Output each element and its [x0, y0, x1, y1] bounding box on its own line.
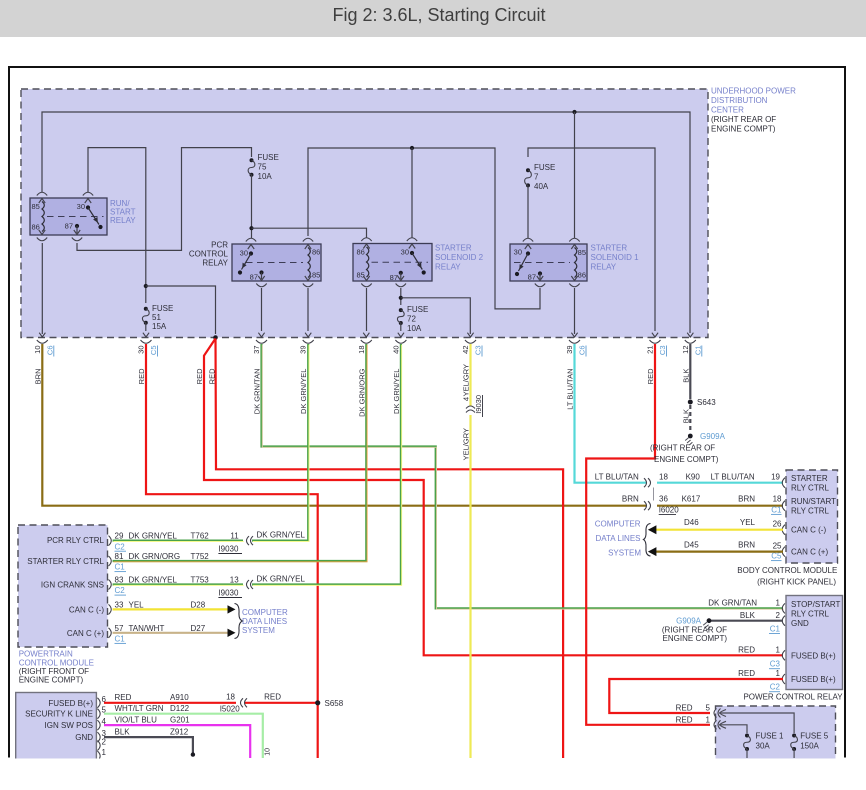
svg-text:BRN: BRN — [622, 495, 639, 504]
pin exit 37 — [258, 333, 264, 337]
wire WHT/LT GRN D122 security K line — [104, 714, 263, 758]
wire BLK Z912 ground — [104, 737, 193, 754]
svg-text:30: 30 — [514, 248, 522, 257]
relay PCR pin arcs — [246, 238, 256, 241]
svg-text:150A: 150A — [800, 742, 819, 751]
svg-text:Fig 2: 3.6L, Starting Circuit: Fig 2: 3.6L, Starting Circuit — [332, 5, 545, 25]
svg-text:ENGINE COMPT): ENGINE COMPT) — [19, 675, 84, 684]
svg-text:D28: D28 — [191, 600, 206, 609]
svg-text:86: 86 — [357, 248, 365, 257]
svg-text:36: 36 — [659, 495, 668, 504]
svg-text:STOP/START: STOP/START — [791, 600, 840, 609]
svg-text:C5: C5 — [771, 552, 782, 561]
svg-text:2: 2 — [776, 611, 781, 620]
svg-text:15A: 15A — [152, 322, 167, 331]
svg-text:12: 12 — [681, 346, 690, 354]
node fuse75 branch — [249, 226, 253, 230]
svg-text:T753: T753 — [191, 576, 210, 585]
splice S658 — [315, 700, 320, 705]
wire PCR 85 down to exit 39 — [307, 288, 309, 331]
fuse FUSE 1 30A — [745, 734, 749, 738]
wire YEL CAN C- to data lines — [113, 608, 228, 610]
svg-text:(RIGHT REAR OF: (RIGHT REAR OF — [650, 444, 715, 453]
svg-text:57: 57 — [115, 624, 124, 633]
fuse FUSE 5 150A — [792, 734, 796, 738]
wire fuse51 branch to junction exit — [146, 286, 216, 334]
relay STARTER SOLENOID 2 RELAY — [353, 244, 432, 282]
svg-text:5: 5 — [706, 704, 711, 713]
inline connector I5020 pin18 on RED — [241, 698, 244, 707]
svg-text:CENTER: CENTER — [711, 106, 744, 115]
relay RUN/START RELAY — [30, 198, 107, 235]
svg-text:STARTER: STARTER — [791, 474, 828, 483]
node fuse51 branch — [144, 284, 148, 288]
svg-text:CAN C (-): CAN C (-) — [791, 526, 826, 535]
svg-text:1: 1 — [102, 748, 107, 757]
svg-text:10: 10 — [265, 748, 272, 756]
svg-text:I9030: I9030 — [218, 589, 239, 598]
svg-text:C3: C3 — [770, 660, 781, 669]
svg-text:BRN: BRN — [33, 369, 42, 385]
pin exit 21 C3 — [652, 333, 658, 337]
wire BRN CAN C+ BCM to data lines — [654, 550, 783, 552]
svg-text:G909A: G909A — [700, 432, 726, 441]
wire DK GRN/YEL PCR85 to PCM pin29 — [252, 344, 308, 541]
svg-text:LT BLU/TAN: LT BLU/TAN — [595, 473, 639, 482]
svg-text:DK GRN/TAN: DK GRN/TAN — [253, 369, 262, 415]
wire bus B+ top — [42, 112, 690, 333]
stop/start pin 2 GND — [782, 616, 785, 626]
svg-text:C1: C1 — [693, 346, 702, 356]
stop/start pin 1 FUSED B+ C3 — [782, 650, 785, 660]
svg-text:YEL/GRY: YEL/GRY — [462, 364, 471, 396]
svg-text:86: 86 — [578, 271, 586, 280]
module box: powertrain control module — [18, 525, 108, 647]
svg-text:T752: T752 — [191, 552, 210, 561]
svg-text:11: 11 — [230, 532, 239, 541]
svg-text:K90: K90 — [686, 473, 701, 482]
svg-text:39: 39 — [299, 346, 308, 354]
svg-text:GND: GND — [75, 733, 93, 742]
svg-text:C1: C1 — [115, 635, 126, 644]
wire TAN/WHT CAN C+ to data lines — [113, 632, 228, 634]
wire VIO/LT BLU G201 ign sw pos — [104, 725, 250, 758]
wire PCR 87 down to exit 37 — [261, 288, 263, 331]
wire BLK exit12 to S643 — [689, 344, 691, 399]
wire DK GRN/TAN PCR87 to stop/start rly ctrl — [262, 344, 784, 608]
wire LT BLU/TAN SS1-86 to BCM pin19 — [575, 344, 647, 483]
svg-text:STARTER RLY CTRL: STARTER RLY CTRL — [27, 557, 104, 566]
svg-text:C1: C1 — [115, 563, 126, 572]
wire fuse block pin5 to fuse5 — [720, 713, 795, 733]
svg-text:83: 83 — [115, 576, 124, 585]
svg-text:RED: RED — [137, 368, 146, 384]
svg-text:I6020: I6020 — [659, 506, 680, 515]
svg-text:40: 40 — [391, 346, 400, 354]
svg-text:TAN/WHT: TAN/WHT — [129, 624, 165, 633]
fuse FUSE 75 10A — [250, 158, 254, 162]
ground G909A right rear — [688, 434, 693, 439]
svg-text:DK GRN/ORG: DK GRN/ORG — [129, 552, 181, 561]
svg-text:87: 87 — [250, 273, 258, 282]
svg-text:DATA LINES: DATA LINES — [242, 617, 287, 626]
svg-text:IGN SW POS: IGN SW POS — [45, 721, 93, 730]
svg-text:85: 85 — [32, 202, 40, 211]
svg-text:G201: G201 — [170, 715, 190, 724]
svg-text:1: 1 — [706, 716, 711, 725]
svg-text:S643: S643 — [697, 398, 716, 407]
pin exit 39 — [305, 333, 311, 337]
svg-text:FUSE: FUSE — [258, 153, 279, 162]
svg-text:C2: C2 — [770, 683, 781, 692]
svg-text:CONTROL MODULE: CONTROL MODULE — [19, 658, 94, 667]
svg-text:BRN: BRN — [738, 541, 755, 550]
svg-text:RELAY: RELAY — [591, 263, 617, 272]
svg-text:FUSE 5: FUSE 5 — [800, 732, 829, 741]
svg-text:DK GRN/YEL: DK GRN/YEL — [392, 369, 401, 414]
svg-text:FUSE: FUSE — [407, 305, 428, 314]
inline connector I9030 pin4 on YEL/GRY — [466, 406, 475, 409]
wire branch to exit 42 — [401, 298, 471, 334]
svg-text:1: 1 — [776, 669, 781, 678]
svg-text:CONTROL: CONTROL — [189, 250, 229, 259]
svg-text:FUSED B(+): FUSED B(+) — [791, 651, 836, 660]
fuse FUSE 51 15A — [144, 307, 148, 311]
svg-text:FUSE: FUSE — [152, 304, 173, 313]
wire BRN run/start coil to BCM — [42, 344, 646, 506]
svg-text:87: 87 — [65, 222, 73, 231]
svg-text:ENGINE COMPT): ENGINE COMPT) — [711, 125, 776, 134]
svg-text:10: 10 — [33, 346, 42, 354]
relay SS2 pin arcs — [361, 238, 371, 241]
svg-text:1: 1 — [776, 599, 781, 608]
svg-text:D122: D122 — [170, 704, 190, 713]
svg-text:SOLENOID 2: SOLENOID 2 — [435, 253, 484, 262]
svg-text:30A: 30A — [756, 742, 771, 751]
wire RED junction straight branch — [216, 339, 564, 759]
pin exit 40 — [398, 333, 404, 337]
svg-text:IGN CRANK SNS: IGN CRANK SNS — [41, 581, 104, 590]
wire run/start 30 to fuse51 — [88, 148, 146, 303]
svg-text:RELAY: RELAY — [202, 259, 228, 268]
svg-text:S658: S658 — [325, 699, 344, 708]
svg-text:RED: RED — [264, 693, 281, 702]
module box: body control module — [786, 470, 838, 563]
wire run/start 87 loop to fuse75 — [77, 148, 252, 251]
svg-text:ENGINE COMPT): ENGINE COMPT) — [654, 455, 719, 464]
svg-text:2: 2 — [102, 738, 107, 747]
svg-text:85: 85 — [578, 248, 586, 257]
svg-text:CAN C (+): CAN C (+) — [67, 629, 104, 638]
svg-text:4: 4 — [462, 397, 471, 401]
ground G909A stop/start — [707, 618, 712, 623]
svg-text:40A: 40A — [534, 182, 549, 191]
svg-text:C6: C6 — [45, 346, 54, 356]
wire RED fuse51 to S658 splice — [146, 344, 318, 758]
svg-text:BLK: BLK — [681, 369, 690, 383]
bottom clip — [0, 759, 866, 786]
stop/start pin 1 FUSED B+ C2 — [782, 674, 785, 684]
svg-text:C2: C2 — [115, 542, 126, 551]
svg-text:BODY CONTROL MODULE: BODY CONTROL MODULE — [737, 566, 837, 575]
relay RUN/START pin arcs — [37, 192, 47, 195]
svg-text:30: 30 — [77, 202, 85, 211]
svg-text:POWERTRAIN: POWERTRAIN — [19, 650, 73, 659]
relay SS2 87 pin dot — [399, 271, 403, 275]
svg-text:RED: RED — [646, 368, 655, 384]
svg-text:SECURITY K LINE: SECURITY K LINE — [25, 710, 93, 719]
wire branch to SS2 relay 86 — [252, 228, 367, 238]
svg-text:GND: GND — [791, 619, 809, 628]
svg-text:18: 18 — [773, 495, 782, 504]
svg-text:10A: 10A — [258, 172, 273, 181]
svg-text:51: 51 — [152, 313, 161, 322]
svg-text:RUN/START: RUN/START — [791, 497, 836, 506]
computer data lines brace right — [644, 524, 651, 557]
svg-text:19: 19 — [771, 473, 780, 482]
pin exit 10 C6 — [39, 333, 45, 337]
svg-text:DK GRN/YEL: DK GRN/YEL — [129, 576, 178, 585]
relay PCR 87 pin dot — [259, 270, 263, 274]
wire DK GRN/YEL SS2-87 to PCM pin83 — [252, 344, 401, 585]
svg-text:87: 87 — [528, 273, 536, 282]
pin exit 30 C5 — [143, 333, 149, 337]
pin exit 18 — [363, 333, 369, 337]
wire RED exit21 to fuse block pin1 — [586, 344, 710, 725]
svg-text:39: 39 — [565, 346, 574, 354]
svg-text:SOLENOID 1: SOLENOID 1 — [591, 253, 640, 262]
wire YEL/GRY exit42 down to bottom — [469, 344, 471, 406]
fuse FUSE 72 10A — [399, 308, 403, 312]
svg-text:POWER CONTROL RELAY: POWER CONTROL RELAY — [743, 693, 843, 702]
svg-text:LT BLU/TAN: LT BLU/TAN — [711, 473, 755, 482]
title bar — [0, 0, 866, 37]
svg-text:(RIGHT KICK PANEL): (RIGHT KICK PANEL) — [757, 578, 836, 587]
svg-text:DK GRN/YEL: DK GRN/YEL — [299, 369, 308, 414]
node SS2 30 tap — [410, 146, 414, 150]
svg-text:DISTRIBUTION: DISTRIBUTION — [711, 96, 768, 105]
svg-text:81: 81 — [115, 552, 124, 561]
underhood power distribution center box — [21, 89, 708, 338]
svg-text:72: 72 — [407, 315, 416, 324]
svg-text:(RIGHT REAR OF: (RIGHT REAR OF — [662, 625, 727, 634]
wire SS1 86 down to exit 39 C6 — [574, 288, 576, 334]
svg-text:STARTER: STARTER — [591, 244, 628, 253]
module box: power control relay (stop/start) — [786, 596, 843, 690]
svg-text:C6: C6 — [578, 346, 587, 356]
module box: bottom-left module — [16, 693, 97, 761]
svg-text:33: 33 — [115, 600, 124, 609]
svg-text:C3: C3 — [474, 346, 483, 356]
svg-text:PCR: PCR — [211, 241, 228, 250]
wire BLK ground to stop/start — [711, 620, 783, 622]
svg-text:I9030: I9030 — [218, 545, 239, 554]
relay RUN/START switch arm — [86, 205, 90, 209]
wire RED junction diagonal branch to fused B+ C3 — [204, 339, 783, 656]
svg-text:42: 42 — [461, 346, 470, 354]
svg-text:T762: T762 — [191, 532, 210, 541]
svg-text:Z912: Z912 — [170, 727, 189, 736]
svg-text:18: 18 — [659, 473, 668, 482]
wire DK GRN/ORG SS2-85 to PCM pin81 — [113, 344, 367, 561]
svg-text:CAN C (+): CAN C (+) — [791, 548, 828, 557]
svg-text:DK GRN/YEL: DK GRN/YEL — [257, 575, 306, 584]
svg-text:7: 7 — [534, 173, 539, 182]
svg-text:RLY CTRL: RLY CTRL — [791, 507, 829, 516]
svg-text:D27: D27 — [191, 624, 206, 633]
svg-text:C1: C1 — [770, 625, 781, 634]
relay RUN/START 87 pin dot — [75, 224, 79, 228]
wire fuse75 to PCR relay 30 — [251, 175, 253, 238]
svg-text:YEL/GRY: YEL/GRY — [462, 428, 471, 460]
svg-text:DK GRN/YEL: DK GRN/YEL — [257, 531, 306, 540]
svg-text:I5020: I5020 — [220, 705, 241, 714]
svg-text:85: 85 — [312, 271, 320, 280]
wire SS2 87 down to fuse72 — [400, 288, 402, 305]
splice S643 — [688, 400, 693, 405]
relay SS1 pin arcs — [523, 238, 533, 241]
svg-text:SYSTEM: SYSTEM — [608, 549, 641, 558]
bcm pin 25 CAN C (+) — [782, 547, 785, 557]
svg-text:FUSE: FUSE — [534, 163, 555, 172]
svg-text:WHT/LT GRN: WHT/LT GRN — [115, 704, 164, 713]
svg-text:RELAY: RELAY — [110, 216, 136, 225]
svg-text:37: 37 — [252, 346, 261, 354]
svg-text:RLY CTRL: RLY CTRL — [791, 610, 829, 619]
svg-text:BLK: BLK — [681, 409, 690, 423]
svg-text:DATA LINES: DATA LINES — [595, 534, 640, 543]
svg-text:UNDERHOOD POWER: UNDERHOOD POWER — [711, 87, 796, 96]
svg-text:RED: RED — [738, 669, 755, 678]
svg-text:BRN: BRN — [738, 495, 755, 504]
svg-text:30: 30 — [137, 346, 146, 354]
svg-text:C1: C1 — [771, 506, 782, 515]
svg-text:29: 29 — [115, 532, 124, 541]
node junction on border S-exit — [213, 335, 218, 340]
svg-text:RED: RED — [676, 716, 693, 725]
relay SS1 87 pin dot — [538, 271, 542, 275]
svg-text:DK GRN/ORG: DK GRN/ORG — [357, 368, 366, 417]
bcm pin 26 CAN C (-) — [782, 525, 785, 535]
svg-text:YEL: YEL — [129, 600, 145, 609]
relay SS2 switch arm — [410, 251, 414, 255]
stop/start pin 1 RLY CTRL — [782, 603, 785, 613]
svg-text:COMPUTER: COMPUTER — [242, 608, 288, 617]
svg-text:RED: RED — [676, 704, 693, 713]
svg-text:ENGINE COMPT): ENGINE COMPT) — [663, 634, 728, 643]
svg-text:LT BLU/TAN: LT BLU/TAN — [566, 369, 575, 410]
svg-text:DK GRN/YEL: DK GRN/YEL — [129, 532, 178, 541]
relay PCR switch arm — [249, 251, 253, 255]
svg-text:COMPUTER: COMPUTER — [595, 520, 641, 529]
wire fuse7 bus to exit 21 — [528, 148, 655, 331]
svg-text:85: 85 — [357, 271, 365, 280]
svg-text:DK GRN/TAN: DK GRN/TAN — [708, 599, 757, 608]
svg-text:30: 30 — [240, 249, 248, 258]
wire RED fused B+ C2 to fuse block pin5 — [609, 679, 783, 713]
wire RED A910 fused B+ to S658 — [104, 702, 236, 704]
relay PCR CONTROL RELAY — [232, 244, 321, 281]
computer data lines brace left — [235, 604, 243, 639]
svg-text:C3: C3 — [658, 346, 667, 356]
wire fuse7 to SS1 30 — [527, 185, 529, 238]
inline connector I6020 pin36 on BRN — [648, 501, 651, 510]
pin exit 42 C3 — [467, 333, 473, 337]
wire run/start 86 down to exit 10 — [41, 243, 43, 334]
svg-text:30: 30 — [401, 248, 409, 257]
svg-text:CAN C (-): CAN C (-) — [69, 606, 104, 615]
pin exit 12 C1 — [687, 333, 693, 337]
svg-text:D46: D46 — [684, 518, 699, 527]
svg-text:YEL: YEL — [740, 518, 756, 527]
inline connector K90 pin18 on LT BLU/TAN — [648, 478, 651, 487]
wire PCR 86 riser and bus to SS1 87 — [308, 148, 540, 309]
svg-text:RELAY: RELAY — [435, 263, 461, 272]
svg-text:87: 87 — [390, 273, 398, 282]
svg-text:BLK: BLK — [115, 727, 131, 736]
wire BLK dashed S643 to ground — [689, 405, 691, 432]
svg-text:G909A: G909A — [676, 617, 702, 626]
svg-text:26: 26 — [773, 520, 782, 529]
wire starter solenoid1 85 riser — [574, 112, 576, 238]
svg-text:25: 25 — [773, 541, 782, 550]
svg-text:VIO/LT BLU: VIO/LT BLU — [115, 715, 158, 724]
wire SS2 30 riser — [411, 148, 413, 238]
wire fuse block pin1 to fuse1 — [720, 725, 748, 733]
relay SS1 switch arm — [526, 251, 530, 255]
wire SS2 85 down to exit 18 — [366, 288, 368, 331]
svg-text:PCR RLY CTRL: PCR RLY CTRL — [47, 536, 105, 545]
svg-text:RLY CTRL: RLY CTRL — [791, 484, 829, 493]
svg-text:BLK: BLK — [740, 611, 756, 620]
relay STARTER SOLENOID 1 RELAY — [510, 244, 587, 281]
svg-text:FUSE 1: FUSE 1 — [756, 732, 785, 741]
svg-text:C2: C2 — [115, 586, 126, 595]
node bus junction — [572, 110, 576, 114]
svg-text:FUSED B(+): FUSED B(+) — [48, 699, 93, 708]
svg-text:18: 18 — [357, 346, 366, 354]
bcm pin 18 RUN/START RLY CTRL — [782, 501, 785, 511]
bcm pin 19 STARTER RLY CTRL — [782, 478, 785, 488]
pin exit 39 C6 — [571, 333, 577, 337]
svg-text:RED: RED — [207, 368, 216, 384]
svg-text:C5: C5 — [149, 346, 158, 356]
svg-text:FUSED B(+): FUSED B(+) — [791, 675, 836, 684]
svg-text:21: 21 — [646, 346, 655, 354]
svg-text:1: 1 — [776, 645, 781, 654]
fuse FUSE 7 40A — [526, 168, 530, 172]
svg-text:RED: RED — [738, 645, 755, 654]
svg-text:13: 13 — [230, 576, 239, 585]
svg-text:86: 86 — [312, 248, 320, 257]
svg-text:STARTER: STARTER — [435, 244, 472, 253]
module box: fuse block bottom right — [716, 706, 836, 760]
svg-text:75: 75 — [258, 163, 267, 172]
svg-text:10A: 10A — [407, 324, 422, 333]
wire YEL CAN C- BCM to data lines — [654, 529, 783, 531]
svg-text:(RIGHT REAR OF: (RIGHT REAR OF — [711, 115, 776, 124]
svg-text:RED: RED — [195, 368, 204, 384]
svg-text:I9030: I9030 — [474, 395, 483, 414]
svg-text:SYSTEM: SYSTEM — [242, 626, 275, 635]
svg-text:K617: K617 — [682, 495, 701, 504]
svg-text:A910: A910 — [170, 693, 189, 702]
svg-text:RED: RED — [115, 693, 132, 702]
svg-text:D45: D45 — [684, 541, 699, 550]
svg-text:18: 18 — [226, 693, 235, 702]
node fuse72 branch — [399, 296, 403, 300]
